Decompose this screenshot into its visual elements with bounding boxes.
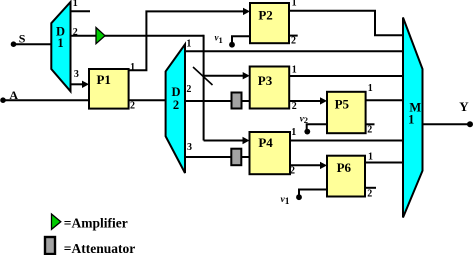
wire branch to P3 input 1: [204, 75, 245, 77]
wire S to D1: [14, 43, 53, 45]
wire D1 output 1 stub: [71, 10, 91, 12]
node v1 top terminal dot: [229, 42, 235, 48]
legend amplifier symbol: [52, 214, 61, 229]
demux D1: [51, 2, 70, 91]
svg-text:P5: P5: [335, 96, 350, 111]
svg-text:1: 1: [292, 65, 297, 76]
wire P5 output 1 to M1: [366, 99, 404, 101]
wire D2 output 3 through attenuator to P4: [185, 156, 250, 158]
P1 input arrowhead: [82, 81, 89, 88]
svg-text:S: S: [19, 32, 26, 46]
wire P2 pin 2 stub: [289, 35, 298, 37]
box P1: [89, 69, 129, 109]
svg-text:2: 2: [367, 189, 372, 200]
box P3: [250, 67, 290, 109]
svg-text:D: D: [171, 85, 180, 99]
node v2 terminal dot: [304, 129, 310, 135]
P6 input arrowhead: [320, 162, 327, 169]
P5 input arrowhead: [320, 97, 327, 104]
svg-text:1: 1: [408, 113, 414, 127]
attenuator on D2 output 2: [232, 93, 242, 109]
svg-text:2: 2: [292, 101, 297, 112]
svg-text:1: 1: [130, 62, 135, 73]
P4 input arrowhead: [243, 137, 250, 144]
svg-text:2: 2: [173, 98, 179, 112]
wire D2 output 2 through attenuator to P3: [185, 100, 250, 102]
wire P4 output 1 to M1: [290, 140, 404, 142]
node slash mark at P3 branch junction: [193, 67, 213, 85]
wire P3 output 1 to M1: [289, 75, 404, 77]
wire P1 output 1 up and to P2 input: [129, 11, 246, 70]
box P5: [327, 92, 366, 133]
wire D2 output 1 to M1: [185, 50, 404, 52]
svg-text:1: 1: [73, 0, 78, 9]
svg-text:2: 2: [130, 101, 135, 112]
node A terminal dot: [0, 97, 6, 103]
svg-text:2: 2: [73, 27, 78, 38]
node v1 bottom terminal dot: [296, 194, 302, 200]
svg-text:1: 1: [291, 127, 296, 138]
svg-text:P4: P4: [258, 135, 273, 150]
wire A line to D2 input: [3, 99, 166, 101]
wire D1 output 3 to P1: [71, 83, 85, 85]
wire M1 output to Y: [423, 123, 471, 125]
wire P6 output 1 to M1: [365, 162, 404, 164]
svg-text:=Attenuator: =Attenuator: [64, 241, 135, 255]
attenuator on D2 output 3: [231, 149, 241, 166]
wire P6 pin 2 stub: [365, 187, 376, 189]
legend attenuator symbol: [45, 237, 55, 254]
wire v1 bottom source to P6 input 2: [299, 190, 327, 198]
wire v2 source to P5 input 2: [307, 124, 327, 131]
svg-text:2: 2: [186, 84, 191, 95]
svg-text:2: 2: [290, 166, 295, 177]
node Y terminal dot: [467, 121, 473, 127]
mux M1: [403, 18, 423, 218]
wire junction to P4 input 1: [204, 140, 245, 142]
svg-text:=Amplifier: =Amplifier: [64, 216, 128, 231]
svg-text:1: 1: [292, 0, 297, 9]
svg-text:P1: P1: [96, 72, 110, 87]
node S terminal dot: [11, 41, 17, 47]
svg-text:P2: P2: [258, 8, 272, 23]
amplifier on D1 output 2: [96, 28, 105, 44]
svg-text:3: 3: [74, 69, 79, 80]
wire P2 output 1 to M1: [289, 11, 404, 36]
box P2: [250, 3, 289, 43]
P3 input arrowhead: [243, 72, 250, 79]
svg-text:1: 1: [57, 36, 63, 50]
svg-text:3: 3: [187, 142, 192, 153]
svg-text:P3: P3: [258, 73, 273, 88]
wire P5 pin 2 stub: [366, 123, 375, 125]
wire vertical junction line x=203.6: [203, 35, 205, 141]
svg-text:1: 1: [186, 39, 191, 50]
svg-text:Y: Y: [459, 99, 469, 114]
wire P4 output 2 to P6 input: [290, 164, 322, 166]
svg-text:2: 2: [291, 36, 296, 47]
svg-text:v2: v2: [300, 114, 308, 126]
svg-text:1: 1: [368, 83, 373, 94]
wire D1 output 2 to amplifier to vertical junction: [71, 35, 204, 37]
box P4: [250, 132, 291, 174]
svg-text:2: 2: [367, 125, 372, 136]
wire P3 output 2 to P5 input: [289, 100, 322, 102]
box P6: [327, 156, 365, 197]
svg-text:A: A: [9, 88, 18, 102]
svg-text:P6: P6: [337, 160, 352, 175]
demux D2: [166, 44, 185, 173]
svg-text:1: 1: [368, 152, 373, 163]
P2 input arrowhead: [243, 8, 250, 15]
wire v1 source to P2 input 2: [232, 36, 250, 44]
